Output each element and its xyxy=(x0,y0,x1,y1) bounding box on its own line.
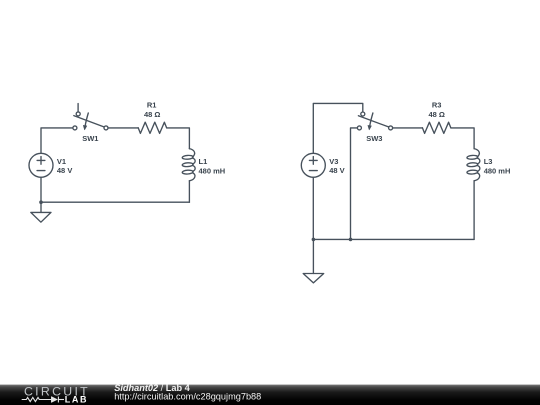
voltage source V1 xyxy=(29,153,53,177)
node junction left xyxy=(39,200,43,204)
footer bar xyxy=(0,385,540,405)
wire V3 top to SW3 top terminal xyxy=(313,103,363,153)
resistor R1 xyxy=(138,122,166,133)
svg-text:48 V: 48 V xyxy=(329,166,344,175)
wire R1 to L1 top xyxy=(167,128,190,149)
wire SW1 to R1 xyxy=(108,127,138,129)
svg-text:48 Ω: 48 Ω xyxy=(428,110,444,119)
switch SW3 xyxy=(357,112,392,130)
wire L1 bottom to rail xyxy=(188,181,190,202)
svg-text:http://circuitlab.com/c28gqujm: http://circuitlab.com/c28gqujmg7b88 xyxy=(114,391,261,401)
svg-text:L1: L1 xyxy=(199,157,208,166)
resistor R3 xyxy=(422,122,450,133)
wire L3 bottom to rail xyxy=(473,181,475,240)
wire V1 bottom to ground node xyxy=(40,177,42,202)
wire bottom rail right circuit xyxy=(313,238,474,240)
inductor L1 xyxy=(182,149,195,181)
svg-text:R3: R3 xyxy=(432,101,442,110)
svg-text:480 mH: 480 mH xyxy=(199,166,226,175)
voltage source V3 xyxy=(301,153,325,177)
wire top-left V1 to SW1 xyxy=(41,128,73,153)
node junction SW3 rail xyxy=(349,238,353,242)
svg-text:SW1: SW1 xyxy=(82,134,98,143)
wire SW3 left terminal down to rail xyxy=(351,128,358,239)
wire R3 to L3 top xyxy=(451,128,474,149)
node junction V3 rail xyxy=(312,238,316,242)
svg-text:V1: V1 xyxy=(57,157,66,166)
ground right xyxy=(303,239,324,283)
wire SW3 to R3 xyxy=(393,127,423,129)
inductor L3 xyxy=(467,149,480,181)
svg-text:48 V: 48 V xyxy=(57,166,72,175)
wire V3 bottom to rail xyxy=(312,177,314,239)
svg-text:V3: V3 xyxy=(329,157,338,166)
svg-text:48 Ω: 48 Ω xyxy=(144,110,160,119)
svg-text:480 mH: 480 mH xyxy=(484,166,511,175)
switch SW1 xyxy=(73,104,108,130)
logo resistor-diode glyph xyxy=(22,397,64,403)
svg-text:R1: R1 xyxy=(147,101,157,110)
svg-text:LAB: LAB xyxy=(65,394,88,404)
svg-text:SW3: SW3 xyxy=(366,134,382,143)
wire bottom rail left circuit xyxy=(41,201,189,203)
svg-text:L3: L3 xyxy=(484,157,493,166)
ground left xyxy=(31,202,51,222)
